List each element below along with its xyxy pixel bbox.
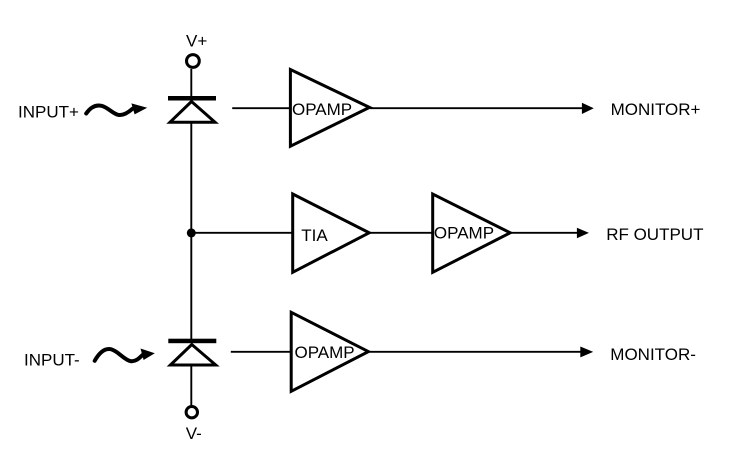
op-amp U3	[291, 312, 368, 391]
arrowhead RF OUTPUT	[577, 228, 589, 239]
op-amp U2	[433, 194, 511, 272]
photodiode D1 cathode bar	[168, 96, 216, 101]
op-amp U1	[290, 70, 369, 147]
svg-text:RF OUTPUT: RF OUTPUT	[606, 225, 703, 244]
wire node to TIA	[191, 232, 293, 234]
wire TIA to op-amp U2	[370, 232, 432, 234]
svg-text:OPAMP: OPAMP	[434, 223, 494, 242]
svg-text:V-: V-	[186, 424, 202, 443]
svg-text:INPUT-: INPUT-	[24, 350, 80, 369]
photodiode D1	[170, 102, 215, 123]
svg-text:INPUT+: INPUT+	[18, 103, 79, 122]
svg-text:MONITOR-: MONITOR-	[610, 345, 696, 364]
wire D1 to op-amp U1	[232, 107, 290, 109]
terminal V-	[186, 407, 197, 418]
svg-text:MONITOR+: MONITOR+	[611, 100, 701, 119]
wire D2 to V- terminal	[190, 366, 192, 407]
svg-text:TIA: TIA	[301, 226, 328, 245]
wire D2 to op-amp U3	[231, 351, 290, 353]
svg-text:OPAMP: OPAMP	[292, 100, 352, 119]
photon arrow into D1	[86, 103, 147, 115]
wire U3 to MONITOR- arrow	[369, 351, 581, 353]
wire V+ terminal to D1	[190, 69, 192, 97]
amplifier TIA	[293, 194, 370, 272]
arrowhead MONITOR+	[582, 103, 594, 114]
terminal V+	[187, 55, 200, 68]
vertical wire D1 to D2 through node	[190, 123, 192, 340]
wire U2 to RF OUTPUT arrow	[511, 232, 579, 234]
svg-text:V+: V+	[186, 32, 207, 51]
photon arrow into D2	[95, 349, 155, 362]
arrowhead MONITOR-	[580, 347, 593, 358]
svg-text:OPAMP: OPAMP	[295, 343, 355, 362]
node junction	[187, 228, 196, 237]
photodiode D2 cathode bar	[168, 339, 216, 344]
wire U1 to MONITOR+ arrow	[370, 107, 583, 109]
photodiode D2	[170, 345, 215, 366]
